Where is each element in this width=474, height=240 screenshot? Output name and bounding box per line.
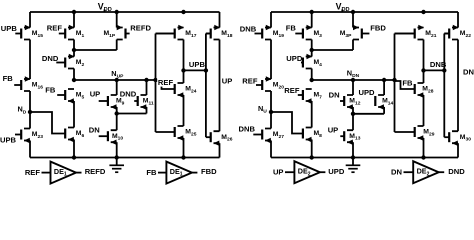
svg-text:DND: DND [42, 54, 59, 63]
wire M29 source to bus [423, 138, 425, 158]
wire M16 source to node ND [29, 91, 31, 129]
wire VDD to M18 drain [219, 12, 221, 28]
wire M3 source down [311, 40, 313, 57]
transistor M11 [134, 95, 154, 110]
wire M27 source to bus [270, 141, 272, 158]
node UPB wire [184, 69, 206, 71]
transistor M7 [298, 89, 322, 104]
wire VDD to M22 drain [457, 12, 459, 28]
svg-text:UP: UP [273, 167, 284, 176]
svg-text:DNB: DNB [239, 124, 256, 133]
junction node DNB [421, 68, 425, 72]
svg-text:UPD: UPD [359, 88, 376, 97]
wire M20 source to node NU [270, 91, 272, 129]
junction NDN-M12 [351, 78, 355, 82]
svg-text:FBD: FBD [201, 167, 217, 176]
wire M19 source to M20 drain [270, 40, 272, 80]
svg-text:REF: REF [242, 77, 258, 86]
wire DNB to M22 gate [444, 33, 448, 35]
wire M2 source to node NUP [73, 69, 75, 81]
junction VDD-M3P [351, 10, 355, 14]
junction UPB branch [204, 68, 208, 72]
wire M24 source to M25 drain [183, 95, 185, 126]
junction bus-M29 [421, 155, 425, 159]
transistor M3P [340, 25, 370, 40]
ground [346, 158, 361, 173]
junction node ND [28, 110, 32, 114]
delay element DE2b [404, 161, 445, 183]
wire M26 source to bus [219, 143, 221, 157]
svg-text:REF: REF [284, 86, 300, 95]
wire M25 source to bus [183, 138, 185, 158]
transistor M2 [56, 54, 84, 69]
delay element DE1b [158, 162, 197, 184]
transistor M5 [57, 89, 84, 104]
transistor M14 [375, 95, 394, 110]
wire VDD to M3 drain [311, 12, 313, 28]
transistor M17 [156, 25, 197, 40]
wire FB vertical distribution [394, 34, 396, 133]
label REF on vertical wire [157, 79, 174, 87]
transistor M19 [255, 25, 285, 40]
svg-text:UPB: UPB [0, 135, 17, 144]
junction M12/M13 node [351, 112, 355, 116]
wire NUP to M9 drain [116, 80, 118, 95]
delay element DE1a [42, 162, 82, 184]
svg-text:UPB: UPB [189, 60, 206, 69]
svg-text:DN: DN [329, 90, 340, 99]
svg-text:FBD: FBD [370, 24, 386, 33]
wire UPB to M18 gate [206, 33, 211, 35]
svg-text:REF: REF [158, 78, 174, 87]
junction NUP-REF vertical [153, 78, 157, 82]
wire node ND to M6 gate [30, 112, 65, 134]
transistor M12 [340, 95, 361, 110]
transistor M18 [206, 25, 233, 40]
wire M13 source to bus [352, 142, 354, 157]
junction NDN-FB vertical [392, 78, 396, 82]
junction VDD-M1P [115, 10, 119, 14]
wire FB to M21 gate [395, 33, 415, 35]
transistor M1P [103, 25, 129, 40]
wire M3P drain to VDD [352, 12, 354, 28]
svg-text:REFD: REFD [85, 167, 106, 176]
wire M21 source to M28 drain [423, 40, 425, 84]
svg-text:FB: FB [286, 24, 297, 33]
svg-text:FB: FB [45, 86, 56, 95]
wire down to M10 drain [116, 114, 118, 131]
junction bus-M10 [115, 155, 119, 159]
wire REF to M25 gate [156, 131, 175, 133]
junction bus-M6 [72, 155, 76, 159]
wire M10 source to bus [116, 142, 118, 157]
wire M23 source to bus [29, 141, 31, 158]
wire NDN to M14 drain [383, 80, 385, 95]
junction node UPB [181, 68, 185, 72]
transistor M3 [295, 25, 322, 40]
wire NDN to M12 drain [352, 80, 354, 95]
wire M8 source to bus [311, 140, 313, 158]
wire M4 source to node NDN [311, 69, 313, 81]
transistor M21 [395, 25, 437, 40]
junction NUP-M9 [115, 78, 119, 82]
transistor M22 [444, 25, 471, 40]
power rail VDD right circuit [271, 11, 458, 13]
wire VDD label stub left [104, 9, 106, 12]
junction bus-M8 [310, 155, 314, 159]
wire M1P source down [116, 40, 118, 51]
transistor M6 [65, 128, 84, 143]
junction bus-M25 [181, 155, 185, 159]
junction VDD-M1 [72, 10, 76, 14]
wire M18 source to M26 drain [219, 40, 221, 132]
wire FB branch to M28 gate [395, 81, 415, 89]
junction NDN-M14 [382, 78, 386, 82]
svg-text:DND: DND [120, 90, 137, 99]
transistor M9 [99, 95, 125, 110]
transistor M4 [301, 54, 322, 69]
wire M14 source down [383, 107, 385, 114]
node NDN wire [312, 79, 395, 81]
node DNB wire [424, 69, 445, 71]
wire FB to M29 gate [395, 131, 415, 133]
label FB on vertical wire [402, 79, 414, 87]
svg-text:REF: REF [47, 23, 63, 32]
wire M22 source to M30 drain [457, 40, 459, 132]
node NUP wire [74, 79, 156, 81]
wire M12-M14 source tie [353, 113, 384, 115]
svg-text:DN: DN [463, 68, 474, 77]
transistor M29 [415, 126, 435, 141]
junction VDD-M17 [181, 10, 185, 14]
delay element DE2a [285, 161, 325, 183]
wire REF vertical distribution [155, 34, 157, 133]
wire M12 source down [352, 107, 354, 114]
junction DNB branch [442, 68, 446, 72]
wire M17 source to M24 drain [183, 40, 185, 84]
wire UPB vertical to M18 and M26 gates [205, 34, 207, 138]
svg-text:UPB: UPB [1, 24, 18, 33]
wire M1-M1P source tie [74, 49, 117, 51]
svg-text:UP: UP [328, 125, 339, 134]
junction M1/M2 node [72, 48, 76, 52]
wire M30 source to bus [457, 143, 459, 157]
junction bus-M13 [351, 155, 355, 159]
wire M11 source down [146, 107, 148, 114]
wire REF branch to M24 gate [156, 81, 175, 89]
transistor M25 [175, 126, 197, 141]
junction M3/M4 node [310, 48, 314, 52]
wire VDD to M1 drain [73, 12, 75, 28]
wire DNB vertical to M22 and M30 gates [443, 34, 445, 138]
transistor M1 [59, 25, 85, 40]
transistor M24 [175, 83, 197, 98]
transistor M13 [340, 130, 360, 145]
junction M9/M10 node [115, 111, 119, 115]
wire M9 source down [116, 107, 118, 114]
svg-text:REFD: REFD [130, 23, 151, 32]
ground [109, 158, 124, 173]
svg-text:FB: FB [402, 78, 413, 87]
power rail VDD left circuit [30, 11, 220, 13]
wire VDD to M15 drain [29, 12, 31, 28]
svg-text:UP: UP [90, 90, 101, 99]
svg-text:UPD: UPD [286, 54, 303, 63]
junction NDN-M4 [310, 78, 314, 82]
transistor M27 [253, 129, 284, 144]
wire M9-M11 source tie [117, 113, 147, 115]
svg-text:UP: UP [222, 77, 233, 86]
wire M6 source to bus [73, 140, 75, 158]
wire NUP to M11 drain [146, 80, 148, 95]
transistor M8 [303, 128, 322, 143]
wire VDD label stub right [341, 9, 343, 12]
wire M1P drain to VDD [116, 12, 118, 28]
wire M28 source to M29 drain [423, 95, 425, 126]
junction VDD-M3 [310, 10, 314, 14]
ground bus right circuit [271, 157, 458, 159]
wire M7 source to M8 drain [311, 101, 313, 128]
transistor M15 [15, 25, 43, 40]
ground bus left circuit [30, 157, 220, 159]
wire M3P source down [352, 40, 354, 51]
transistor M16 [14, 76, 43, 91]
wire M3-M3P source tie [312, 49, 353, 51]
svg-text:FB: FB [146, 168, 157, 177]
wire node NU to M8 gate [271, 112, 303, 134]
transistor M20 [256, 76, 284, 91]
svg-text:UPD: UPD [328, 167, 345, 176]
wire M15 source to M16 drain [29, 40, 31, 80]
transistor M26 [206, 131, 233, 146]
transistor M28 [415, 83, 434, 98]
junction NUP-M11 [144, 78, 148, 82]
svg-text:DND: DND [448, 167, 465, 176]
junction VDD-M21 [421, 10, 425, 14]
wire M1 source down [73, 40, 75, 57]
junction node NU [269, 110, 273, 114]
wire VDD to M19 drain [270, 12, 272, 28]
transistor M23 [15, 129, 43, 144]
svg-text:FB: FB [3, 74, 14, 83]
wire M5 source to M6 drain [73, 101, 75, 128]
transistor M30 [444, 131, 471, 146]
junction NUP-M2 [72, 78, 76, 82]
svg-text:DN: DN [89, 126, 100, 135]
wire REF to M17 gate [156, 33, 175, 35]
svg-text:REF: REF [25, 168, 41, 177]
wire down to M13 drain [352, 114, 354, 130]
svg-text:DNB: DNB [240, 25, 257, 34]
svg-text:DN: DN [391, 167, 402, 176]
transistor M10 [99, 130, 124, 145]
